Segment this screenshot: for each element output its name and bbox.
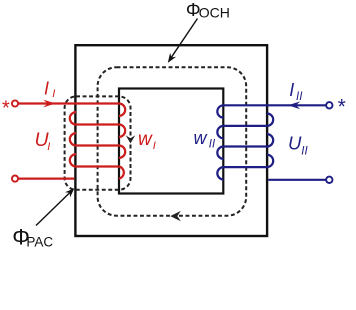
leakage flux pointer <box>36 191 72 226</box>
primary terminal top <box>12 100 18 106</box>
secondary terminal top <box>326 102 332 108</box>
core window <box>119 89 223 194</box>
current arrow I1 <box>43 100 55 108</box>
leakage flux loop (dashed) <box>65 96 131 189</box>
primary terminal bottom <box>12 176 18 182</box>
svg-text:*: * <box>2 97 10 119</box>
secondary terminal bottom <box>326 177 332 183</box>
svg-text:II: II <box>301 145 308 157</box>
main flux loop (dashed) <box>98 67 247 216</box>
svg-text:*: * <box>338 96 346 119</box>
svg-text:II: II <box>296 91 303 103</box>
primary winding W1 (red) <box>18 104 125 179</box>
svg-text:OCH: OCH <box>199 5 230 21</box>
svg-text:I: I <box>153 140 156 152</box>
svg-text:II: II <box>209 139 216 151</box>
svg-text:I: I <box>47 141 50 153</box>
svg-text:I: I <box>44 78 49 98</box>
leakage flux arrow <box>126 135 135 143</box>
svg-text:I: I <box>289 80 294 100</box>
secondary winding W2 (blue) <box>217 105 326 180</box>
svg-text:U: U <box>288 133 302 154</box>
svg-text:I: I <box>52 88 55 100</box>
core outer edge <box>75 45 267 236</box>
svg-text:w: w <box>194 128 208 148</box>
current arrow I2 <box>288 101 300 109</box>
main flux pointer <box>170 19 198 60</box>
main flux arrow <box>170 211 181 221</box>
svg-text:w: w <box>138 129 153 150</box>
svg-text:PAC: PAC <box>26 234 53 249</box>
